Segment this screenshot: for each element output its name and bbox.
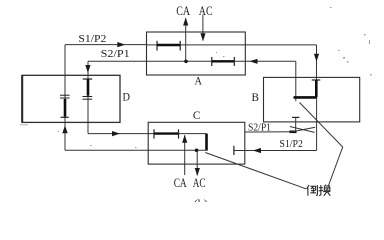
AC line box A	[202, 15, 204, 41]
box D	[21, 75, 23, 122]
piston B vertical: thick bar	[315, 80, 318, 97]
piston bottom tick left D	[61, 116, 69, 118]
piston right D: double ticks	[83, 96, 93, 98]
CA arrow up box C	[182, 135, 187, 143]
wire upper through box A	[147, 44, 317, 46]
piston A upper: thick bar	[157, 44, 180, 46]
piston B vertical: top tick	[312, 79, 321, 81]
switch piston below B: thick bottom bar	[290, 131, 297, 134]
arrow down on x=316	[314, 54, 319, 62]
arrow right on D-C wire	[112, 131, 120, 136]
tick end in box C	[233, 146, 235, 155]
label daohuan char 2: huan	[319, 185, 331, 196]
old wire from box C to switch element	[245, 131, 296, 133]
node dot C	[195, 149, 199, 153]
svg-text:(b): (b)	[194, 197, 208, 203]
svg-text:AC: AC	[193, 176, 206, 190]
cross-out X line 2	[289, 127, 315, 132]
piston A upper: left tick	[156, 41, 158, 51]
box B	[264, 77, 360, 122]
wire from box D right vertical	[87, 61, 89, 133]
switch piston below B: top tick	[292, 116, 299, 118]
svg-text:CA: CA	[176, 4, 190, 18]
wire left vertical x=65 through box D	[64, 45, 66, 151]
wire S2/P1 corner down to bar in box B	[295, 61, 297, 101]
thick vertical bar in box C	[205, 134, 208, 151]
piston right D: thick bar	[87, 79, 90, 96]
piston double ticks left D	[60, 94, 70, 96]
AC line box C	[196, 150, 198, 175]
piston A lower: thick bar	[212, 60, 235, 62]
svg-text:S2/P1: S2/P1	[101, 48, 130, 60]
arrow left on bottom S1/P2 wire	[253, 148, 261, 153]
label daohuan (switch-over) char 1: dao	[307, 185, 318, 196]
piston A lower: left tick	[211, 57, 213, 66]
scan speckles	[20, 7, 372, 148]
bottom S1/P2 wire into box C	[234, 150, 317, 152]
piston A upper: right tick	[179, 41, 181, 51]
svg-text:D: D	[123, 90, 131, 104]
wire S2/P1 horizontal through box A	[88, 60, 296, 62]
svg-text:AC: AC	[199, 4, 213, 18]
arrow down into box D top	[85, 65, 90, 73]
AC arrow down	[200, 33, 205, 41]
bottom wire into box C	[65, 149, 207, 151]
switch piston below B: stem	[295, 117, 297, 131]
cross-out X line 1	[290, 127, 315, 133]
svg-text:B: B	[251, 90, 259, 104]
leader line to C element	[205, 153, 306, 189]
arrow up into box D bottom	[62, 125, 67, 133]
svg-text:C: C	[193, 108, 201, 122]
svg-text:S1/P2: S1/P2	[78, 33, 106, 45]
stem below bar x=316 down to corner	[316, 97, 318, 150]
CA line box C	[184, 135, 186, 175]
thick horizontal bar in box B	[294, 96, 317, 99]
wire S1/P2 top horizontal	[65, 44, 147, 46]
CA line box A	[185, 18, 187, 61]
piston A lower: right tick	[233, 57, 235, 66]
CA arrow up	[183, 18, 188, 26]
piston C: left tick	[153, 129, 155, 138]
arrow left into box A right side	[250, 59, 258, 64]
piston thick bar left D	[64, 99, 67, 117]
arrow right on S1/P2 wire	[117, 42, 125, 47]
leader line to B element	[300, 103, 343, 186]
piston C: right tick	[178, 129, 180, 138]
AC arrow down box C	[195, 168, 200, 176]
piston right D: top tick	[83, 78, 93, 80]
box C	[148, 122, 245, 164]
svg-text:CA: CA	[174, 176, 187, 190]
svg-text:A: A	[195, 74, 203, 88]
wire right vertical x=316 down into box B	[316, 45, 318, 80]
box A	[147, 32, 246, 75]
svg-text:S1/P2: S1/P2	[279, 139, 303, 150]
piston C: thick bar	[154, 132, 179, 134]
wire D to C horizontal	[88, 133, 207, 135]
node dot A	[184, 60, 188, 64]
